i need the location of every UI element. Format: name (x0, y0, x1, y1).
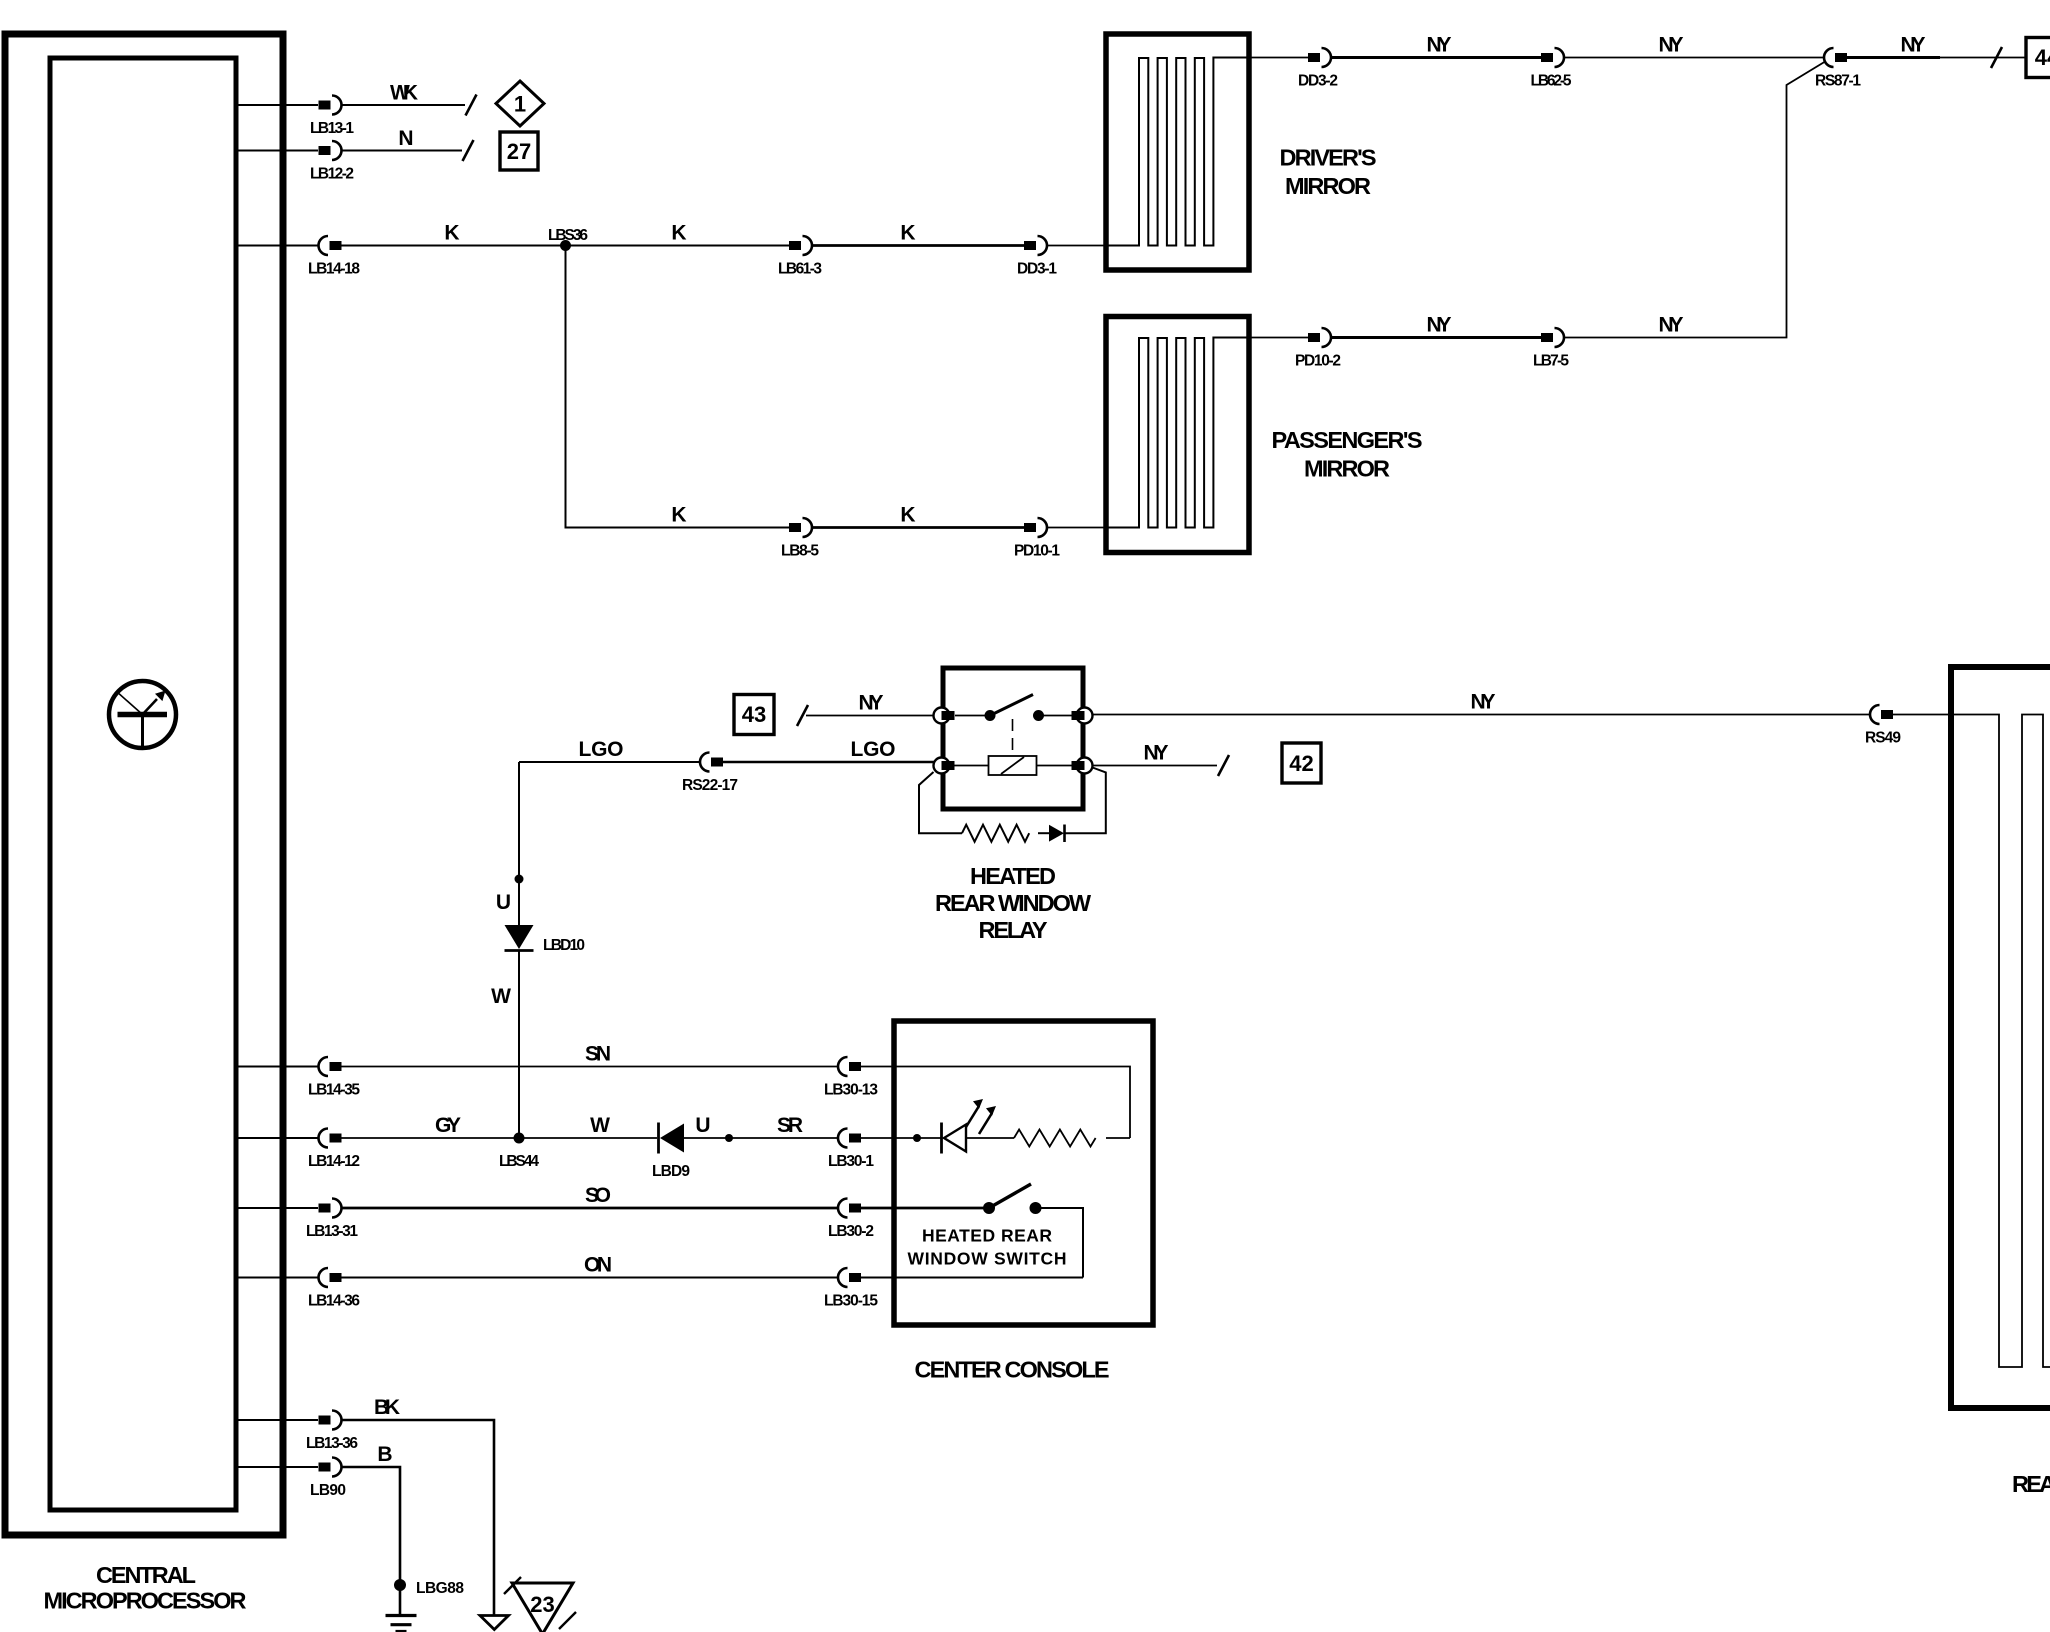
wire K LB61-3 to DD3-1 (812, 222, 1024, 246)
svg-text:42: 42 (1289, 751, 1313, 776)
wire B to ground LBG88 (341, 1443, 400, 1585)
svg-text:LB14-36: LB14-36 (308, 1293, 360, 1310)
svg-text:LB14-12: LB14-12 (308, 1153, 360, 1170)
svg-text:SO: SO (585, 1184, 611, 1207)
diode LBD9 (652, 1123, 690, 1181)
driver's mirror box (1106, 34, 1249, 270)
node LBS44 (499, 1133, 539, 1171)
wire K node LBS36 down to LB8-5 (566, 246, 790, 528)
svg-text:N: N (398, 127, 413, 150)
off-page box 42 (1282, 743, 1321, 783)
connector RS49 (1865, 705, 1901, 747)
relay terminal top-right (1072, 708, 1093, 724)
off-page box 27 (500, 132, 538, 170)
passenger's mirror box (1106, 317, 1249, 553)
svg-text:LB8-5: LB8-5 (781, 543, 819, 560)
svg-text:NY: NY (1659, 314, 1684, 337)
driver's mirror label (1280, 145, 1377, 200)
node LBS36 (548, 227, 588, 251)
connector LB13-36 (306, 1411, 358, 1453)
connector LB30-2 (828, 1199, 874, 1241)
off-page diamond 1 (496, 81, 544, 126)
relay terminal bottom-left (934, 758, 955, 774)
heated rear window switch (908, 1184, 1084, 1278)
svg-text:LGO: LGO (851, 738, 896, 761)
resistor in console (966, 1130, 1130, 1147)
svg-text:RS87-1: RS87-1 (1815, 73, 1861, 90)
connector LB90 (310, 1458, 346, 1500)
wire LB30-1 into console (861, 1137, 917, 1139)
connector PD10-1 (1014, 518, 1060, 560)
connector LB30-13 (824, 1057, 878, 1099)
svg-text:MICROPROCESSOR: MICROPROCESSOR (44, 1588, 247, 1614)
svg-text:NY: NY (1471, 691, 1496, 714)
connector RS22-17 (682, 753, 738, 795)
svg-text:NY: NY (1659, 34, 1684, 57)
wire LGO branch down to diode LBD10 (518, 762, 520, 879)
wire W LBS44 to LBD9 (519, 1114, 657, 1138)
wire LB30-2 into console to switch (861, 1207, 989, 1210)
svg-text:DD3-2: DD3-2 (1298, 73, 1338, 90)
off-page box 43 (734, 695, 774, 735)
connector LB8-5 (781, 518, 819, 560)
svg-text:CENTRAL: CENTRAL (96, 1562, 196, 1588)
wire U LBD9 to splice (684, 1114, 729, 1138)
svg-text:23: 23 (530, 1592, 554, 1617)
svg-text:PASSENGER'S: PASSENGER'S (1272, 427, 1423, 453)
connector LB30-1 (828, 1129, 874, 1171)
wire NY LB62-5 to RS87-1 (1564, 34, 1825, 58)
svg-text:27: 27 (507, 139, 531, 164)
svg-text:LB61-3: LB61-3 (778, 261, 822, 278)
wire LGO corner to RS22-17 (519, 738, 700, 762)
wire ON (342, 1254, 839, 1278)
svg-text:LB30-2: LB30-2 (828, 1223, 874, 1240)
svg-text:LB13-1: LB13-1 (310, 120, 354, 137)
svg-text:LB30-15: LB30-15 (824, 1293, 878, 1310)
wire N (341, 127, 474, 161)
ground arrow at 23 (480, 1616, 509, 1630)
svg-text:LBS44: LBS44 (499, 1153, 539, 1170)
diode LBD10 (505, 925, 586, 954)
svg-text:LB90: LB90 (310, 1482, 346, 1499)
svg-text:LB30-1: LB30-1 (828, 1153, 874, 1170)
transistor symbol inside microprocessor (109, 681, 176, 748)
wire U node to LBD10 (518, 879, 520, 925)
svg-text:LB13-36: LB13-36 (306, 1435, 358, 1452)
central microprocessor inner box (50, 58, 236, 1510)
splice on LED wire (913, 1134, 921, 1142)
svg-text:LB14-35: LB14-35 (308, 1082, 360, 1099)
wire RS49 to rear screen (1893, 714, 1954, 716)
svg-text:PD10-2: PD10-2 (1295, 353, 1341, 370)
wire SN into console (861, 1067, 1130, 1139)
svg-text:K: K (671, 504, 686, 527)
svg-text:MIRROR: MIRROR (1285, 173, 1371, 199)
svg-text:1: 1 (514, 92, 526, 117)
ground node LBG88 (394, 1579, 464, 1597)
wire ON into console to switch branch (861, 1277, 1083, 1279)
svg-text:LB12-2: LB12-2 (310, 166, 354, 183)
wire NY relay to RS49 (1092, 691, 1870, 715)
svg-text:NY: NY (1144, 742, 1169, 765)
LED of heated rear window switch (917, 1099, 996, 1154)
wire K microprocessor to node LBS36 (342, 222, 566, 246)
svg-text:SR: SR (777, 1114, 803, 1137)
wire GY (342, 1114, 520, 1138)
relay terminal top-left (934, 708, 955, 724)
wire WK (341, 82, 477, 116)
connector LB13-31 (306, 1199, 358, 1241)
rear screen heater grid (1954, 715, 2050, 1368)
svg-text:LBD9: LBD9 (652, 1163, 690, 1180)
connector LB14-18 (308, 236, 360, 278)
wire K node LBS36 to LB61-3 (566, 222, 790, 246)
connector RS87-1 (1815, 48, 1861, 90)
svg-text:WK: WK (390, 82, 418, 105)
connector LB7-5 (1533, 328, 1569, 370)
node above LBD10 (496, 875, 524, 915)
svg-text:K: K (671, 222, 686, 245)
svg-text:WINDOW SWITCH: WINDOW SWITCH (908, 1249, 1067, 1269)
svg-text:43: 43 (742, 702, 766, 727)
connector LB61-3 (778, 236, 822, 278)
earth point triangle 23 (504, 1577, 576, 1632)
wire SO (341, 1184, 838, 1208)
connector LB30-15 (824, 1268, 878, 1310)
central microprocessor label (44, 1562, 247, 1614)
svg-text:K: K (900, 222, 915, 245)
wire passenger's mirror to PD10-2 (1249, 337, 1308, 339)
connector LB14-12 (308, 1129, 360, 1171)
svg-text:CENTER CONSOLE: CENTER CONSOLE (915, 1357, 1110, 1383)
heated rear window relay box (943, 668, 1083, 809)
wire LGO RS22-17 to relay coil (723, 738, 934, 762)
svg-text:44: 44 (2035, 45, 2050, 70)
rear screen box (1951, 667, 2050, 1408)
pin stub LB14-35 (236, 1066, 318, 1068)
svg-text:ON: ON (584, 1254, 612, 1277)
pin stub LB12-2 (236, 150, 318, 152)
svg-text:U: U (695, 1114, 710, 1137)
svg-text:LB30-13: LB30-13 (824, 1082, 878, 1099)
relay terminal bottom-right (1072, 758, 1093, 774)
central microprocessor outer box (5, 34, 283, 1535)
splice on SR wire (725, 1134, 733, 1142)
pin stub LB14-36 (236, 1277, 318, 1279)
svg-text:HEATED: HEATED (970, 863, 1056, 889)
off-page box 44 (2026, 38, 2050, 78)
wire BK to ground 23 (341, 1396, 494, 1615)
relay switch contact (955, 695, 1072, 757)
relay coil (955, 756, 1072, 775)
wire PD10-1 to passenger's mirror (1047, 527, 1106, 529)
svg-text:W: W (590, 1114, 610, 1137)
svg-text:SN: SN (585, 1043, 611, 1066)
svg-text:K: K (900, 504, 915, 527)
svg-text:NY: NY (859, 692, 884, 715)
connector LB62-5 (1531, 48, 1572, 90)
connector LB13-1 (310, 96, 354, 138)
wire SR splice to LB30-1 (729, 1114, 838, 1138)
svg-text:U: U (496, 891, 511, 914)
wire NY 43 to relay (797, 692, 934, 727)
wire NY PD10-2 to LB7-5 (1331, 314, 1541, 338)
svg-text:HEATED REAR: HEATED REAR (922, 1226, 1052, 1246)
svg-text:RS22-17: RS22-17 (682, 777, 738, 794)
svg-text:LB7-5: LB7-5 (1533, 353, 1569, 370)
wire DD3-1 to driver's mirror (1047, 245, 1106, 247)
svg-text:BK: BK (374, 1396, 400, 1419)
svg-text:K: K (444, 222, 459, 245)
resistor and diode loop under relay (919, 768, 1106, 843)
pin stub LB13-1 (236, 104, 318, 106)
svg-text:LBD10: LBD10 (543, 937, 585, 954)
wire W LBD10 to node LBS44 (491, 951, 519, 1139)
svg-text:DD3-1: DD3-1 (1017, 261, 1057, 278)
svg-text:DRIVER'S: DRIVER'S (1280, 145, 1377, 171)
connector DD3-1 (1017, 236, 1057, 278)
svg-text:LB13-31: LB13-31 (306, 1223, 358, 1240)
svg-text:LBS36: LBS36 (548, 227, 588, 244)
connector LB12-2 (310, 141, 354, 183)
passenger's mirror label (1272, 427, 1423, 482)
pin stub LB13-36 (236, 1419, 318, 1421)
svg-text:LB14-18: LB14-18 (308, 261, 360, 278)
pin stub LB14-12 (236, 1137, 318, 1139)
heated rear window relay label (935, 863, 1092, 943)
svg-text:RELAY: RELAY (979, 917, 1048, 943)
connector LB14-36 (308, 1268, 360, 1310)
svg-text:MIRROR: MIRROR (1304, 456, 1390, 482)
svg-text:REAR S: REAR S (2012, 1471, 2050, 1497)
wire K LB8-5 to PD10-1 (812, 504, 1024, 528)
svg-text:NY: NY (1901, 34, 1926, 57)
svg-text:LB62-5: LB62-5 (1531, 73, 1572, 90)
wire NY RS87-1 to off-page 44 (1847, 34, 2026, 69)
driver's mirror heater grid (1106, 58, 1249, 246)
pin stub LB14-18 (236, 245, 318, 247)
svg-text:LBG88: LBG88 (416, 1580, 464, 1597)
svg-text:PD10-1: PD10-1 (1014, 543, 1060, 560)
svg-text:GY: GY (435, 1114, 461, 1137)
pin stub LB90 (236, 1466, 318, 1468)
wire NY DD3-2 to LB62-5 (1331, 34, 1541, 58)
passenger's mirror heater grid (1106, 338, 1249, 528)
connector LB14-35 (308, 1057, 360, 1099)
connector DD3-2 (1298, 48, 1338, 90)
center console box (894, 1021, 1153, 1325)
svg-text:W: W (491, 985, 511, 1008)
wire SN (342, 1043, 839, 1067)
svg-text:B: B (377, 1443, 392, 1466)
svg-text:REAR WINDOW: REAR WINDOW (935, 890, 1092, 916)
wire driver's mirror to DD3-2 (1249, 57, 1308, 59)
svg-text:NY: NY (1427, 314, 1452, 337)
svg-text:LGO: LGO (579, 738, 624, 761)
ground symbol (386, 1585, 417, 1632)
connector PD10-2 (1295, 328, 1341, 370)
wire NY relay to off-page 42 (1092, 742, 1229, 777)
pin stub LB13-31 (236, 1207, 318, 1209)
svg-text:RS49: RS49 (1865, 730, 1901, 747)
svg-text:NY: NY (1427, 34, 1452, 57)
wire NY LB7-5 up to RS87-1 (1564, 61, 1826, 338)
